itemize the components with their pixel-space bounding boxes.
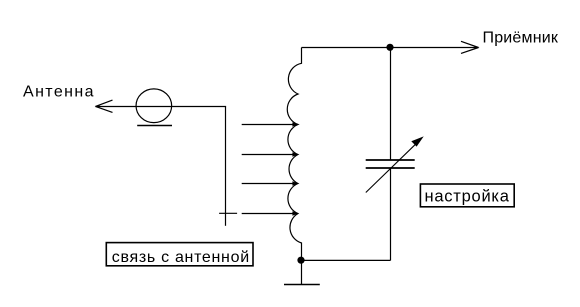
ground [284,284,320,286]
svg-text:Антенна: Антенна [23,84,95,101]
top plate [366,159,415,161]
arrow to antenna (open chevron, pointing left) [96,100,113,112]
coupling element: circle on antenna wire [136,89,172,123]
wire: bottom horizontal [302,259,391,261]
wire: right vertical upper (junction to capacitor) [390,48,392,161]
svg-text:связь с антенной: связь с антенной [112,249,250,266]
label box связь с антенной [106,243,253,266]
tap 4 [242,211,299,215]
inductor L1 (coil, 6 humps bulging left) [287,48,301,285]
arrow to Приёмник (open chevron, pointing right) [461,41,479,53]
tap 3 [242,181,299,185]
variable capacitor C1 [366,136,424,192]
variability arrow shaft [366,143,417,193]
bottom plate [366,167,415,169]
bar under circle [137,125,172,127]
wire: top horizontal to receiver [302,47,479,49]
wire: right vertical lower (capacitor to bottom wire) [390,168,392,260]
variability arrowhead (filled) [411,136,423,146]
svg-text:Приёмник: Приёмник [483,30,559,47]
antenna arrow tip blob [95,105,100,109]
wire: antenna vertical drop [225,107,227,226]
svg-text:настройка: настройка [425,187,510,205]
junction dot top [386,44,393,51]
wire: antenna horizontal [96,106,227,108]
junction dot bottom [297,257,304,264]
tap 2 [242,152,299,156]
tap 1 [242,122,299,126]
receiver arrow tip blob [474,46,479,50]
label box настройка [420,184,514,207]
movable tap contact tick [219,212,237,214]
